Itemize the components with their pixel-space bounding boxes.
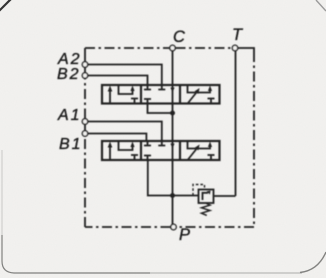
valve U1 center-box blocked port top right	[158, 85, 165, 90]
port A2	[82, 62, 87, 67]
valve U2 through-passage arrowhead	[170, 144, 174, 149]
port P	[171, 224, 176, 229]
valve U1 right-box bridge arrowhead	[208, 86, 212, 92]
valve U2 diagonal arrowhead	[195, 145, 200, 151]
wire B2 to valve U1	[88, 76, 148, 86]
svg-text:B1: B1	[59, 136, 83, 153]
wire carry-over to P junction	[172, 160, 174, 196]
enclosure boundary top-right corner	[238, 48, 254, 52]
valve U2 left-box up arrow	[109, 146, 111, 160]
wire valve U2 bottom port elbow	[148, 160, 173, 196]
valve U2 box divider right	[179, 141, 181, 160]
wire A1 to valve U2	[88, 122, 162, 142]
valve U1 (top directional valve)	[102, 85, 220, 104]
valve U2 left-box bridge	[119, 141, 133, 150]
wire junction to relief valve V1 inlet	[173, 195, 199, 197]
valve U1 left-box up arrow	[109, 90, 111, 104]
frame corner top-left	[0, 0, 11, 11]
enclosure boundary top edge	[85, 47, 170, 49]
valve U1 left-box blocked port	[131, 99, 138, 104]
valve U1 right-box blocked port	[208, 99, 215, 104]
frame corner bottom-right	[300, 252, 326, 273]
relief valve V1 pilot line dashed	[193, 185, 205, 196]
enclosure boundary right edge	[253, 52, 255, 227]
node A2-B2 corner solid segment	[84, 48, 86, 79]
enclosure boundary bottom edge	[179, 226, 255, 228]
relief valve V1 envelope	[199, 190, 214, 204]
wire C down to valve U1	[172, 51, 174, 85]
valve U2 (bottom directional valve)	[102, 141, 220, 160]
valve U1 right-box bridge	[188, 85, 211, 93]
valve U1 left-box bridge	[119, 85, 133, 94]
wire carry-over between valves	[172, 104, 174, 142]
enclosure boundary left edge dash-dot	[84, 79, 86, 119]
valve U2 right-box diagonal arrow	[188, 147, 198, 160]
valve U2 right-box blocked port	[208, 155, 215, 160]
relief valve V1	[193, 185, 214, 216]
valve U2 right-box bridge	[188, 141, 211, 149]
valve U1 left-box bridge arrowhead	[130, 86, 134, 92]
valve U1 center-box blocked port bottom	[144, 99, 151, 104]
valve U1 right-box diagonal arrow	[188, 91, 198, 104]
wire B1 to valve U2	[88, 134, 146, 142]
valve U1 left-box arrowhead	[108, 86, 113, 92]
wire valve U1 bottom port elbow	[148, 104, 173, 114]
port B2	[82, 73, 87, 78]
valve U2 center-box blocked port bottom	[144, 156, 151, 161]
port C	[170, 45, 175, 50]
junction dot valve1/carry-over	[170, 111, 175, 116]
valve U2 envelope	[102, 141, 220, 160]
valve U1 box divider left	[140, 85, 142, 104]
port T	[232, 45, 237, 50]
valve U1 box divider right	[179, 85, 181, 104]
junction dot P/relief	[170, 193, 175, 198]
enclosure boundary left edge	[84, 137, 86, 228]
node A1-B1 solid segment	[84, 119, 86, 137]
frame left and bottom border	[1, 150, 3, 235]
wire A2 to valve U1	[88, 65, 162, 86]
valve U2 center-box blocked port top left	[144, 141, 151, 146]
valve U2 center-box through passage	[172, 141, 174, 160]
valve U2 right-box bridge arrowhead	[208, 142, 212, 148]
wire tank line up to T	[235, 51, 237, 196]
svg-text:C: C	[173, 28, 185, 46]
svg-text:P: P	[179, 226, 190, 244]
valve U2 left-box arrowhead	[108, 142, 113, 148]
valve U2 left-box bridge arrowhead	[130, 142, 134, 148]
relief valve V1 spring	[202, 203, 211, 215]
valve U2 box divider left	[140, 141, 142, 160]
relief valve V1 arrowhead	[207, 191, 211, 195]
port A1	[82, 119, 87, 124]
valve U2 left-box blocked port	[131, 155, 138, 160]
valve U1 center-box through passage	[172, 85, 174, 104]
valve U1 envelope	[102, 85, 220, 104]
valve U1 center-box blocked port top left	[144, 85, 151, 90]
relief valve V1 internal arrow	[203, 193, 209, 200]
wire junction to P port	[173, 196, 174, 225]
wire relief valve V1 outlet to tank line	[214, 195, 236, 197]
valve U2 center-box blocked port top right	[158, 141, 165, 146]
valve U1 through-passage arrowhead	[170, 88, 174, 93]
port B1	[82, 131, 87, 136]
frame corner top-right	[316, 0, 326, 11]
valve U1 diagonal arrowhead	[195, 88, 200, 94]
svg-text:A1: A1	[57, 107, 82, 124]
svg-text:B2: B2	[57, 66, 81, 83]
